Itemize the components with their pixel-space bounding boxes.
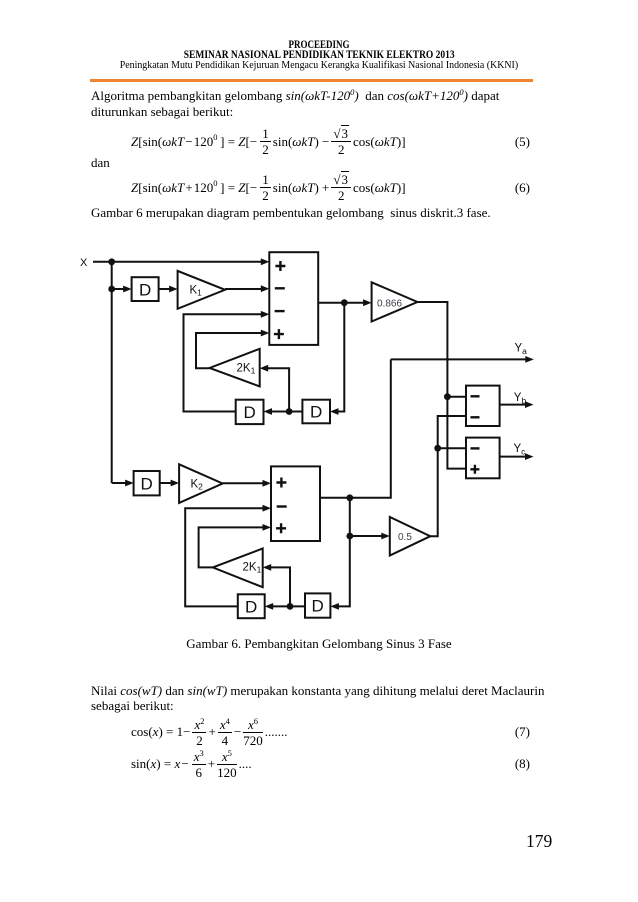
svg-text:D: D [312, 597, 324, 616]
delay D2 [134, 471, 160, 495]
delay D1L [236, 400, 264, 424]
gain 0.5 [390, 517, 431, 556]
adder1 (4-input summing block) [269, 252, 318, 345]
wire: Ya line [391, 358, 528, 360]
figure caption [0, 636, 638, 652]
arrow into 0.5 gain [381, 533, 390, 540]
svg-text:D: D [244, 403, 256, 422]
wire: adder2 down branch [336, 498, 350, 607]
wire: branch to D1 [112, 288, 126, 290]
arrow into adder1 input 1 [261, 258, 270, 265]
wire: Yb output [500, 404, 528, 406]
svg-text:0.866: 0.866 [377, 299, 402, 310]
svg-text:Yc: Yc [514, 443, 527, 457]
arrow into 2K1 [260, 365, 269, 372]
arrow into adder2 input 3 [263, 524, 272, 531]
wire: D2L to adder2 minus [185, 508, 265, 606]
junction: X tap [108, 258, 115, 265]
junction: 0.866 bus tap [444, 393, 451, 400]
arrow into delay D2R [330, 603, 339, 610]
wire: 2K1b output to adder2 plus [199, 527, 265, 567]
adder2 sign - input2 [277, 505, 287, 507]
wire: 2K1 input riser [265, 368, 289, 411]
wire: adder1 output [318, 302, 366, 304]
svg-text:X: X [80, 257, 88, 269]
wire: D1 to K1 [159, 288, 172, 290]
wire: 0.5 riser bus [430, 416, 466, 536]
arrow into 2K1b [263, 564, 272, 571]
Yc block sign + [470, 465, 479, 474]
wire: X vertical bus [111, 262, 113, 483]
junction: 0.5 bus tap [434, 445, 441, 452]
svg-text:Yb: Yb [514, 392, 527, 406]
svg-text:D: D [141, 475, 153, 494]
gain K1 [178, 271, 225, 309]
wire: K2 to adder2 [223, 482, 265, 484]
wire: D1R to D1L [269, 411, 302, 413]
wire: branch to Yb block top input [447, 396, 466, 398]
adder1 sign + input1 [275, 261, 285, 271]
wire: D2R to D2L [270, 605, 305, 607]
wire: K1 to adder1 [225, 288, 263, 290]
wire: branch to Yc block minus input [438, 447, 466, 449]
summing block Yc [466, 438, 500, 479]
arrow into D1 [123, 286, 132, 293]
junction: delay loop 1 [286, 408, 293, 415]
wire: D1L to minus input [184, 314, 264, 411]
header line 2 [67, 47, 571, 62]
junction: 0.5 input tap [346, 533, 353, 540]
Yb block sign - bottom [471, 416, 480, 418]
arrow into adder2 input 1 [263, 480, 272, 487]
paragraph 2 [91, 683, 551, 714]
equation 8 [131, 749, 532, 779]
svg-text:D: D [139, 281, 151, 300]
wire: adder1 down branch [336, 303, 344, 412]
equation 6 [131, 173, 532, 202]
adder2 sign + input1 [276, 478, 286, 488]
arrow into 0.866 gain [363, 299, 372, 306]
header line 1 [80, 37, 559, 52]
junction: adder1 out [341, 299, 348, 306]
junction: adder2 out [346, 494, 353, 501]
wire: adder2 output riser to Ya [320, 359, 391, 497]
header line 3 [32, 59, 606, 71]
gain K2 [179, 464, 223, 503]
wire: branch to 0.5 gain [350, 535, 384, 537]
wire: 2K1 output to adder1 plus [196, 333, 263, 368]
Yc block sign - [471, 447, 480, 449]
gain 2K1 [210, 349, 260, 387]
arrow into D2 [125, 480, 134, 487]
wire: X bus to D2 [112, 482, 128, 484]
adder1 sign + input4 [274, 329, 284, 339]
equation 7 [131, 717, 532, 747]
svg-text:0.5: 0.5 [398, 532, 412, 543]
arrow into delay D2L [265, 603, 274, 610]
delay D2R [305, 593, 330, 617]
gain 2K1b [213, 549, 263, 588]
gain 0.866 [372, 282, 418, 321]
arrow output Yc [525, 453, 534, 460]
arrow into adder2 input 2 [263, 505, 272, 512]
summing block Yb [466, 386, 500, 426]
node X input wire [93, 261, 263, 263]
junction: D1 tap [108, 286, 115, 293]
adder1 sign - input2 [275, 287, 285, 289]
delay D1R [302, 400, 330, 424]
paragraph after eq 6 [91, 205, 491, 221]
svg-text:Ya: Ya [515, 342, 528, 356]
adder2 (3-input summing block) [271, 466, 320, 541]
adder2 sign + input3 [276, 523, 286, 533]
paragraph 1 [91, 88, 551, 119]
orange rule [90, 79, 533, 82]
arrow into delay D1L [264, 408, 273, 415]
adder1 sign - input3 [275, 310, 285, 312]
arrow into adder1 input 4 [261, 330, 270, 337]
arrow into adder1 input 2 [261, 285, 270, 292]
junction: delay loop 2 [287, 603, 294, 610]
wire: D2 to K2 [160, 482, 174, 484]
page number [526, 831, 552, 852]
wire: 0.866 output elbow [417, 302, 466, 469]
Yb block sign - top [471, 395, 480, 397]
arrow output Yb [525, 401, 534, 408]
svg-text:D: D [245, 598, 257, 617]
wire: 2K1b input riser [268, 567, 290, 606]
arrow output Ya [525, 356, 534, 363]
wire: Yc output [500, 456, 528, 458]
equation 5 [131, 127, 532, 156]
delay D2L [238, 594, 265, 618]
dan [91, 155, 110, 171]
arrow into delay D1R [330, 408, 339, 415]
arrow into K1 [169, 286, 178, 293]
arrow into K2 [171, 480, 180, 487]
svg-text:D: D [310, 403, 322, 422]
arrow into adder1 input 3 [261, 311, 270, 318]
delay D1 [132, 277, 159, 301]
